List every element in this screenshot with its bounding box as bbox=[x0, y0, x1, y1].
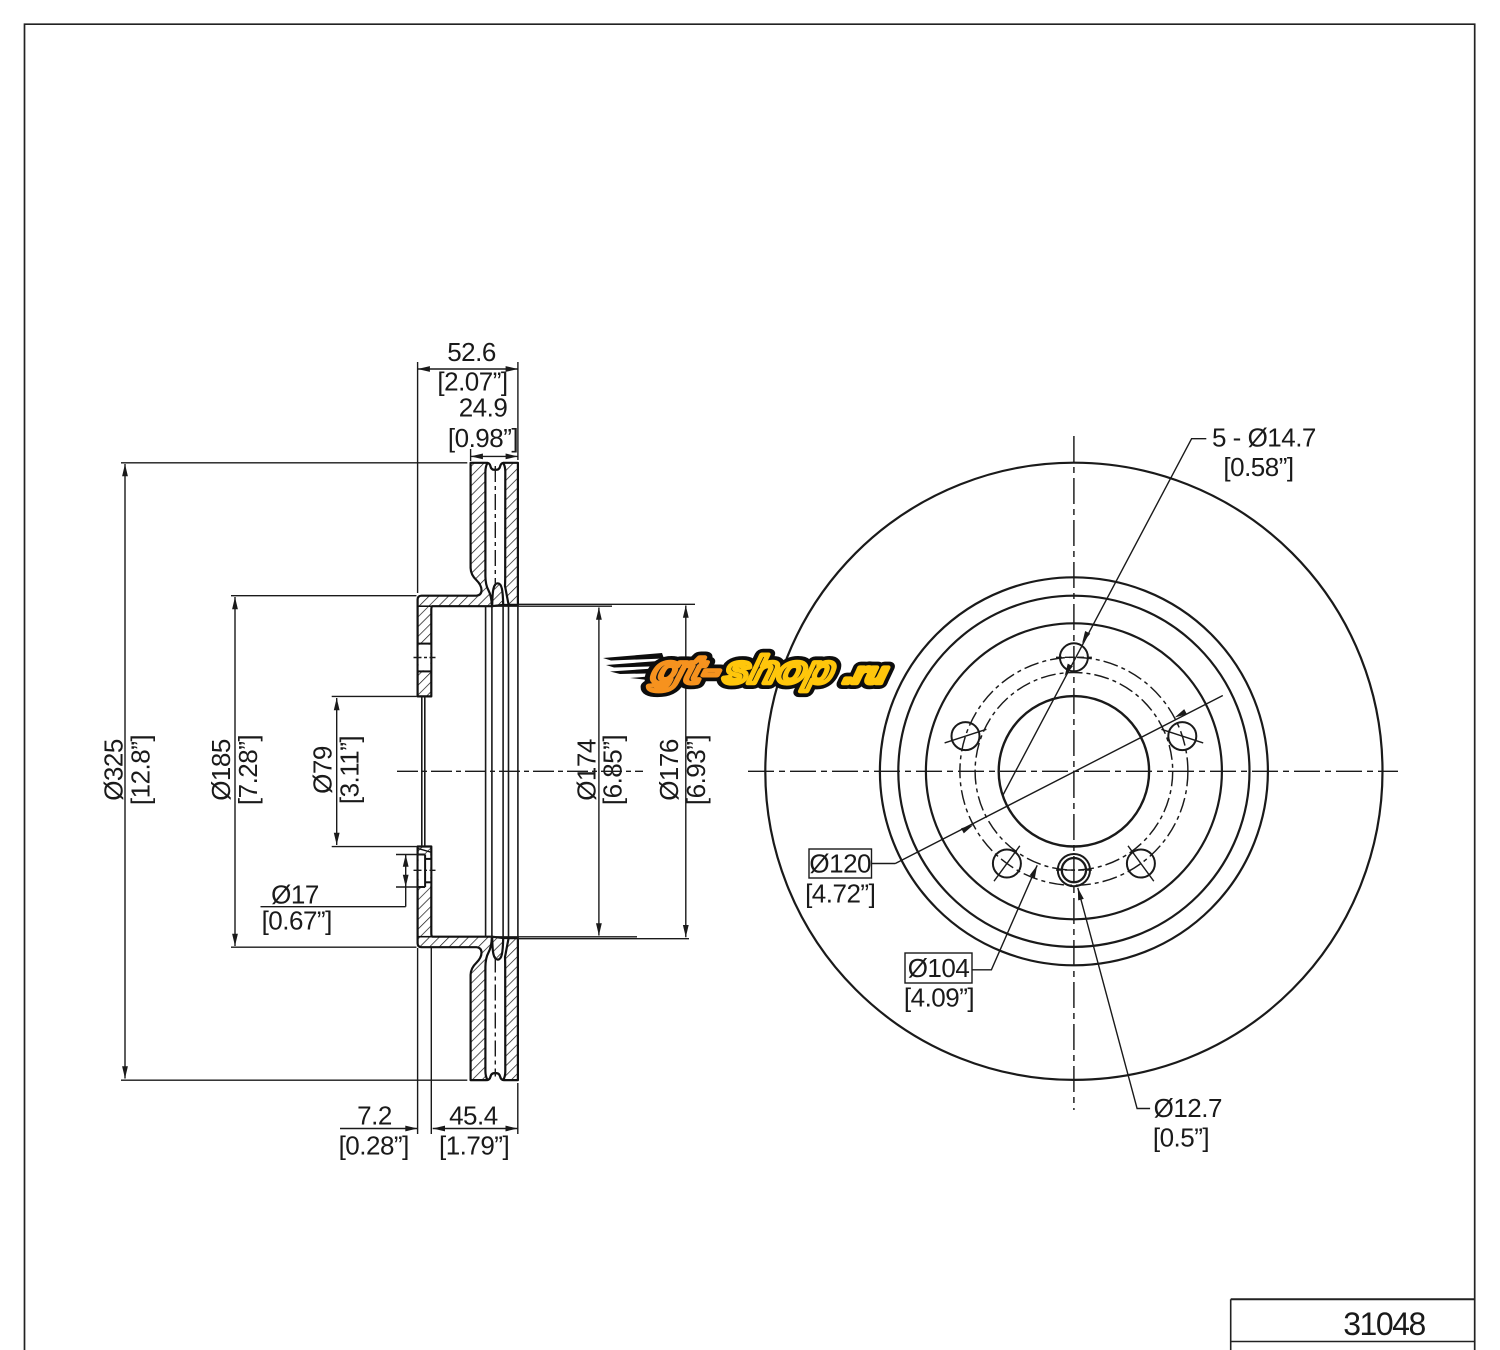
svg-text:[1.79”]: [1.79”] bbox=[439, 1131, 509, 1161]
svg-text:Ø185: Ø185 bbox=[206, 739, 236, 801]
svg-text:Ø176: Ø176 bbox=[654, 739, 684, 801]
svg-text:[4.72”]: [4.72”] bbox=[805, 879, 875, 909]
svg-text:Ø325: Ø325 bbox=[99, 739, 129, 801]
svg-text:[0.67”]: [0.67”] bbox=[262, 906, 332, 936]
svg-text:[0.98”]: [0.98”] bbox=[448, 423, 518, 453]
svg-text:gt-: gt- bbox=[646, 649, 726, 692]
svg-text:Ø12.7: Ø12.7 bbox=[1154, 1093, 1222, 1123]
svg-text:52.6: 52.6 bbox=[447, 337, 496, 367]
svg-text:[3.11”]: [3.11”] bbox=[335, 736, 365, 804]
svg-text:.ru: .ru bbox=[841, 657, 891, 689]
svg-text:[0.28”]: [0.28”] bbox=[339, 1131, 409, 1161]
svg-text:[7.28”]: [7.28”] bbox=[233, 735, 263, 805]
svg-text:Ø104: Ø104 bbox=[908, 953, 970, 983]
svg-text:5 - Ø14.7: 5 - Ø14.7 bbox=[1212, 422, 1316, 452]
svg-text:[6.93”]: [6.93”] bbox=[681, 735, 711, 805]
svg-text:[0.58”]: [0.58”] bbox=[1223, 452, 1293, 482]
svg-text:shop: shop bbox=[719, 649, 840, 692]
svg-text:31048: 31048 bbox=[1343, 1306, 1425, 1342]
svg-text:24.9: 24.9 bbox=[459, 393, 508, 423]
svg-text:[0.5”]: [0.5”] bbox=[1153, 1123, 1209, 1153]
svg-text:7.2: 7.2 bbox=[357, 1101, 392, 1131]
svg-text:Ø120: Ø120 bbox=[809, 849, 871, 879]
svg-text:[6.85”]: [6.85”] bbox=[598, 735, 628, 805]
svg-text:[12.8”]: [12.8”] bbox=[126, 735, 156, 805]
svg-text:Ø79: Ø79 bbox=[308, 746, 338, 794]
svg-text:45.4: 45.4 bbox=[449, 1101, 498, 1131]
svg-text:[4.09”]: [4.09”] bbox=[904, 983, 974, 1013]
